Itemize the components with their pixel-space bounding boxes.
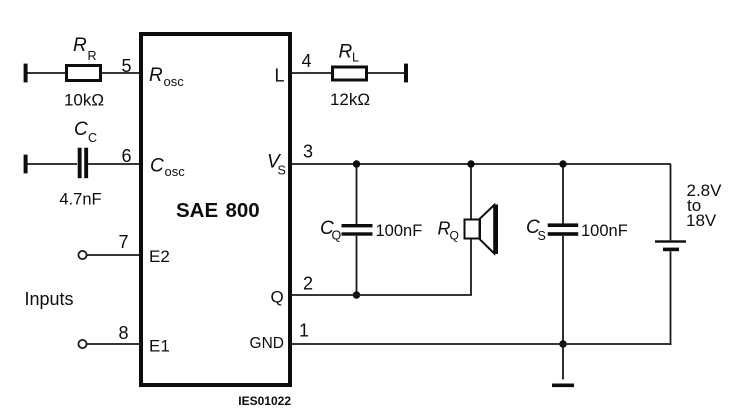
wire ground stub xyxy=(562,344,564,380)
svg-text:8: 8 xyxy=(119,323,129,343)
label R_L xyxy=(339,42,360,65)
capacitor C_C plates xyxy=(78,148,88,179)
svg-text:C: C xyxy=(150,156,164,177)
input terminal circle pin7 xyxy=(78,251,86,259)
svg-text:Q: Q xyxy=(332,229,342,243)
svg-text:L: L xyxy=(274,66,284,86)
wire pin4 left segment xyxy=(292,72,332,74)
wire CS branch lower xyxy=(562,236,564,344)
svg-text:Q: Q xyxy=(450,229,459,243)
label C_S xyxy=(526,217,546,243)
wire pin6 left segment xyxy=(28,163,78,165)
input terminal circle pin8 xyxy=(78,340,86,348)
svg-text:C: C xyxy=(88,131,97,145)
wire pin5 right segment xyxy=(102,72,139,74)
svg-text:S: S xyxy=(278,164,286,178)
wire battery branch lower xyxy=(670,251,672,345)
wire VS rail pin3 xyxy=(292,163,671,165)
svg-text:IES01022: IES01022 xyxy=(238,394,291,408)
svg-text:osc: osc xyxy=(165,164,186,179)
label C_C xyxy=(74,119,97,145)
wire pin4 right segment xyxy=(368,72,404,74)
svg-text:2: 2 xyxy=(303,274,313,294)
svg-text:L: L xyxy=(352,51,359,65)
wire pin8 xyxy=(87,343,139,345)
svg-text:R: R xyxy=(339,42,353,63)
svg-text:5: 5 xyxy=(122,56,132,76)
svg-text:4: 4 xyxy=(302,51,312,71)
IC pin name Rosc xyxy=(149,65,184,89)
svg-text:osc: osc xyxy=(164,74,185,89)
terminal bar T2 xyxy=(24,155,28,174)
svg-text:R: R xyxy=(149,65,163,86)
wire speaker branch lower xyxy=(470,239,472,295)
IC pin name VS xyxy=(267,152,286,178)
svg-text:C: C xyxy=(74,119,88,140)
svg-text:7: 7 xyxy=(119,232,129,252)
svg-text:100nF: 100nF xyxy=(376,222,423,240)
svg-text:4.7nF: 4.7nF xyxy=(59,191,101,209)
svg-text:100nF: 100nF xyxy=(581,222,628,240)
svg-text:E2: E2 xyxy=(149,247,170,266)
wire pin5 left segment xyxy=(28,72,68,74)
svg-text:R: R xyxy=(73,35,87,56)
speaker R_Q xyxy=(465,205,499,255)
svg-text:S: S xyxy=(538,229,546,243)
wire pin6 right segment xyxy=(88,163,139,165)
label R_Q xyxy=(438,219,459,243)
svg-text:3: 3 xyxy=(303,142,313,162)
resistor R_L xyxy=(333,67,367,80)
svg-text:Q: Q xyxy=(271,288,284,307)
resistor R_R xyxy=(67,66,101,81)
svg-text:Inputs: Inputs xyxy=(25,289,74,309)
battery BT1 xyxy=(655,240,686,251)
svg-text:SAE: SAE xyxy=(176,199,218,222)
svg-text:800: 800 xyxy=(226,199,260,222)
label R_R xyxy=(73,35,97,63)
junction dot node VS-CQ xyxy=(353,160,360,167)
wire speaker branch upper xyxy=(470,164,472,219)
IC U1 SAE 800 outline xyxy=(141,34,290,385)
svg-text:18V: 18V xyxy=(686,211,717,230)
wire CS branch upper xyxy=(562,164,564,225)
capacitor C_S plates xyxy=(548,223,579,235)
svg-text:GND: GND xyxy=(250,335,284,352)
junction dot node GND-CS xyxy=(559,340,566,347)
junction dot node VS-CS xyxy=(559,160,566,167)
ground symbol xyxy=(552,384,574,388)
IC pin name Cosc xyxy=(150,156,185,180)
capacitor C_Q plates xyxy=(342,224,373,236)
junction dot node Q-CQ xyxy=(353,291,360,298)
svg-text:E1: E1 xyxy=(149,337,170,356)
terminal bar T3 xyxy=(404,64,408,83)
svg-text:6: 6 xyxy=(122,146,132,166)
wire Q rail pin2 xyxy=(292,294,472,296)
label battery voltage 2.8V to 18V xyxy=(686,181,722,230)
wire CQ branch upper xyxy=(356,164,358,225)
svg-text:10kΩ: 10kΩ xyxy=(64,91,104,110)
svg-text:12kΩ: 12kΩ xyxy=(330,90,370,109)
label C_Q xyxy=(320,218,342,243)
wire pin7 xyxy=(87,254,139,256)
wire GND rail pin1 xyxy=(292,343,671,345)
wire battery branch upper xyxy=(670,164,672,240)
svg-text:1: 1 xyxy=(299,321,309,341)
junction dot node VS-speaker xyxy=(467,160,474,167)
wire CQ branch lower xyxy=(356,236,358,295)
terminal bar T1 xyxy=(24,64,28,83)
svg-text:R: R xyxy=(88,49,97,63)
